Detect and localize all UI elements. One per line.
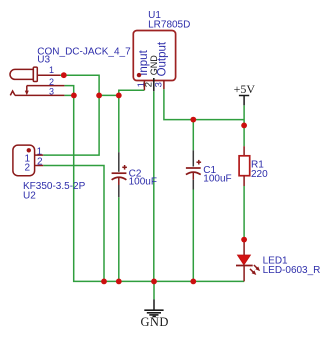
junction dot: [116, 93, 122, 99]
junction dot: [71, 93, 77, 99]
svg-text:3: 3: [49, 86, 54, 96]
wire: [64, 94, 118, 96]
junction dot: [190, 279, 196, 285]
svg-text:U2: U2: [23, 190, 36, 201]
wire: [192, 120, 194, 282]
power flag +5V: [234, 82, 256, 105]
wire: [164, 89, 244, 119]
U2 pin 1 line: [35, 154, 44, 156]
wire: [64, 86, 244, 282]
junction dot: [241, 123, 247, 129]
svg-text:GND: GND: [141, 315, 169, 329]
svg-text:U3: U3: [37, 54, 50, 65]
svg-text:+5V: +5V: [234, 82, 256, 96]
wire: [118, 95, 120, 281]
svg-text:100uF: 100uF: [203, 174, 231, 185]
U1 pin 1 stub: [143, 81, 145, 91]
svg-text:CON_DC-JACK_4_7: CON_DC-JACK_4_7: [37, 47, 131, 58]
wire: [43, 75, 99, 155]
junction dot: [151, 279, 157, 285]
regulator U1 body: [133, 31, 175, 81]
connector U3 CON_DC-JACK_4_7: [10, 67, 64, 95]
svg-text:220: 220: [251, 169, 268, 180]
junction dot: [61, 72, 67, 78]
capacitor C2: [112, 152, 127, 197]
svg-text:2: 2: [25, 162, 31, 173]
wire: [153, 91, 155, 281]
svg-text:Output: Output: [157, 41, 169, 76]
svg-text:LED-0603_R: LED-0603_R: [263, 265, 321, 276]
ground symbol: [144, 281, 163, 316]
U1 pin dot: [137, 73, 141, 77]
wire: [43, 166, 104, 282]
capacitor C1: [186, 150, 201, 189]
wire: [243, 105, 245, 238]
svg-text:Input: Input: [138, 49, 150, 75]
U1 pin 3 stub: [163, 81, 165, 90]
U2 pin 2 line: [35, 165, 44, 167]
terminal U2 body: [13, 145, 35, 176]
svg-text:3: 3: [154, 82, 165, 87]
LED1 emission arrows: [250, 265, 260, 275]
LED LED1: [236, 240, 253, 282]
svg-text:1: 1: [49, 65, 54, 75]
junction dot: [241, 237, 247, 243]
resistor R1: [239, 146, 250, 186]
U1 pin 2 stub: [153, 78, 155, 91]
junction dot: [96, 93, 102, 99]
U3 switch arrowhead: [25, 91, 29, 96]
wire: [119, 90, 145, 95]
svg-text:100uF: 100uF: [129, 177, 157, 188]
junction dot: [116, 279, 122, 285]
junction dot: [101, 279, 107, 285]
junction dot: [190, 117, 196, 123]
svg-text:LR7805D: LR7805D: [148, 20, 190, 31]
U2 pin dot: [27, 148, 31, 152]
